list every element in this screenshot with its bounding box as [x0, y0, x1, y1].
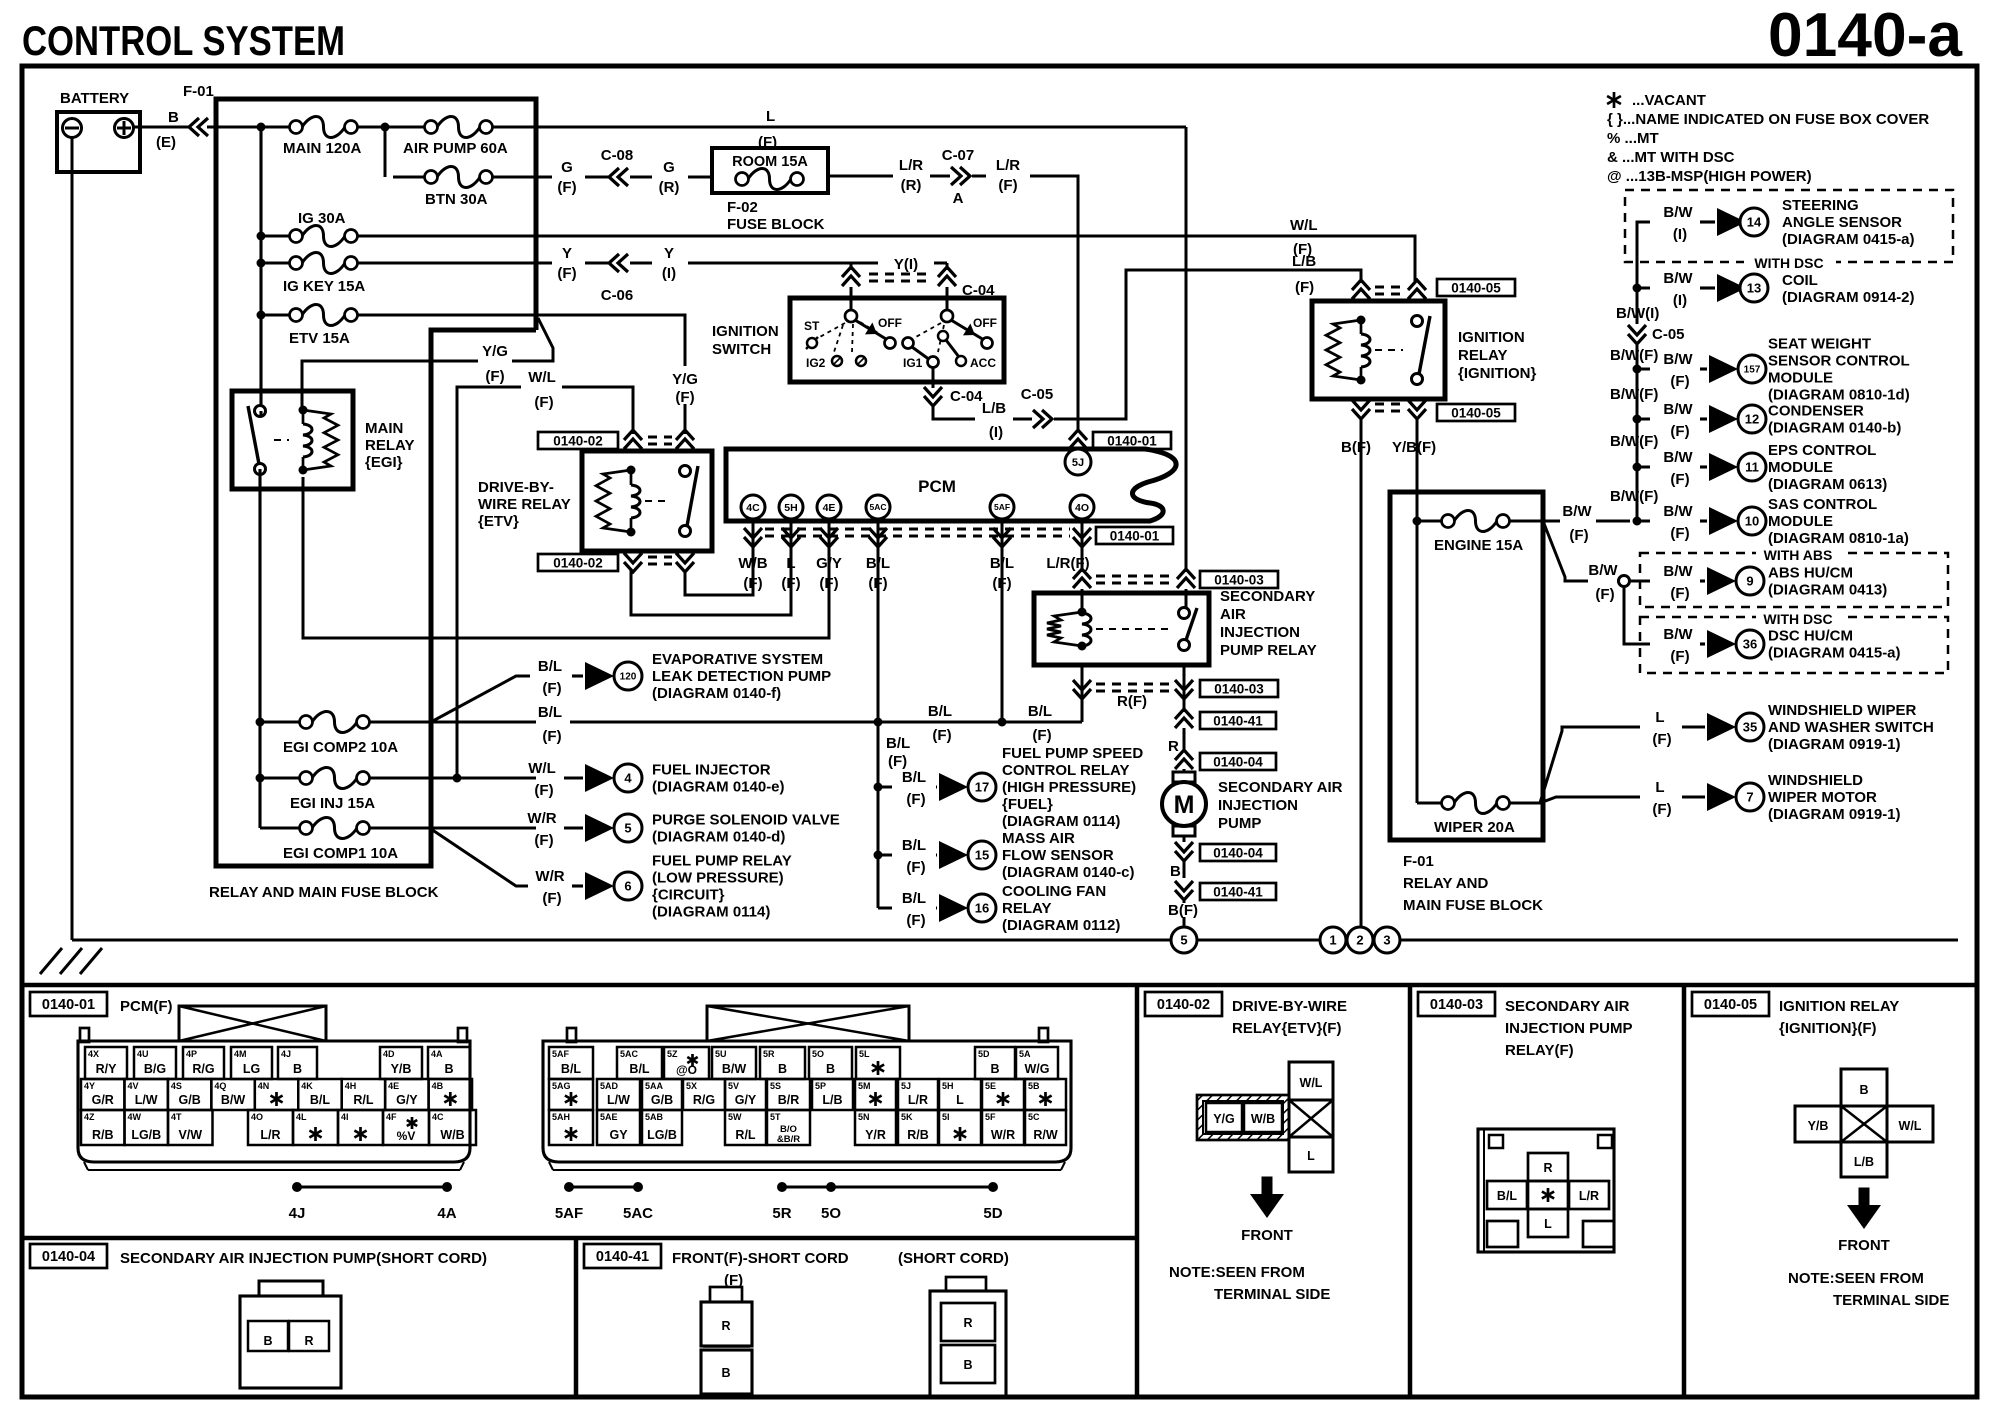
pin 5H — [779, 495, 803, 519]
connector 0140-05 bottom — [1352, 409, 1370, 419]
svg-text:36: 36 — [1743, 637, 1757, 652]
fuse EGI COMP1 10A — [260, 827, 301, 830]
svg-text:Y/G: Y/G — [672, 371, 698, 388]
svg-text:B/L: B/L — [886, 735, 910, 752]
wire B — [1183, 859, 1186, 878]
svg-text:5Z: 5Z — [667, 1049, 678, 1059]
svg-text:5: 5 — [624, 821, 631, 836]
junction 11 — [1633, 463, 1642, 472]
svg-text:0140-03: 0140-03 — [1214, 681, 1264, 696]
fuse ETV 15A — [290, 309, 303, 322]
ground point 1 — [1320, 927, 1346, 953]
ground point 5 — [1171, 927, 1197, 953]
svg-text:B/L: B/L — [902, 837, 926, 854]
svg-text:Y/B: Y/B — [1808, 1119, 1829, 1133]
svg-text:A: A — [953, 190, 964, 207]
svg-text:{IGNITION}(F): {IGNITION}(F) — [1779, 1020, 1877, 1037]
connector short cord — [946, 1277, 986, 1291]
svg-text:5AF: 5AF — [994, 502, 1010, 512]
svg-text:& ...MT WITH DSC: & ...MT WITH DSC — [1607, 149, 1735, 166]
svg-text:0140-41: 0140-41 — [596, 1249, 649, 1265]
svg-text:(F): (F) — [675, 389, 694, 406]
svg-text:0140-01: 0140-01 — [1110, 528, 1160, 543]
wire stub to 17 — [878, 786, 892, 789]
svg-text:DRIVE-BY-WIRE: DRIVE-BY-WIRE — [1232, 998, 1347, 1015]
svg-text:4H: 4H — [345, 1081, 357, 1091]
pin 5S B/R — [767, 1079, 810, 1110]
svg-text:(F): (F) — [1670, 648, 1689, 665]
svg-text:R: R — [963, 1316, 972, 1330]
svg-text:4J: 4J — [281, 1049, 291, 1059]
svg-text:WINDSHIELD WIPER: WINDSHIELD WIPER — [1768, 702, 1916, 719]
svg-text:%V: %V — [397, 1129, 416, 1143]
svg-text:5R: 5R — [763, 1049, 775, 1059]
wire EGI COMP1 output W/R — [370, 827, 536, 830]
svg-text:9: 9 — [1746, 574, 1753, 589]
battery — [57, 90, 140, 172]
svg-text:4E: 4E — [823, 502, 836, 514]
svg-text:AND WASHER SWITCH: AND WASHER SWITCH — [1768, 719, 1934, 736]
connector C-04 bottom chevron — [924, 396, 942, 406]
PCM connector A shell — [179, 1006, 326, 1041]
pin 5AF — [990, 495, 1014, 519]
panel 0140-41 header — [584, 1244, 661, 1268]
svg-text:5X: 5X — [686, 1081, 697, 1091]
svg-text:0140-04: 0140-04 — [1213, 845, 1263, 860]
svg-text:B: B — [826, 1062, 835, 1076]
callout 13 COIL — [1637, 287, 1650, 290]
svg-text:B/W: B/W — [1663, 270, 1693, 287]
svg-text:L: L — [786, 555, 795, 572]
fuse AIR PUMP 60A — [425, 121, 438, 134]
svg-text:(HIGH PRESSURE): (HIGH PRESSURE) — [1002, 779, 1136, 796]
wire L(F) vertical to SAIP relay — [1185, 127, 1188, 572]
svg-text:(F): (F) — [1670, 471, 1689, 488]
svg-text:(DIAGRAM 0140-b): (DIAGRAM 0140-b) — [1768, 420, 1901, 437]
svg-text:4A: 4A — [431, 1049, 443, 1059]
connector 0140-41 chevron R — [1175, 709, 1193, 719]
svg-text:4V: 4V — [127, 1081, 138, 1091]
svg-text:R/L: R/L — [735, 1128, 756, 1142]
svg-text:R/W: R/W — [1033, 1128, 1058, 1142]
svg-text:EGI COMP2 10A: EGI COMP2 10A — [283, 739, 398, 756]
junction callout 17 — [874, 783, 883, 792]
svg-text:(DIAGRAM 0810-1a): (DIAGRAM 0810-1a) — [1768, 530, 1909, 547]
wire switch to pump R(F) — [1183, 665, 1186, 712]
svg-text:C-07: C-07 — [942, 147, 975, 164]
pin 4T V/W — [168, 1110, 213, 1145]
svg-text:4X: 4X — [88, 1049, 99, 1059]
svg-text:0140-03: 0140-03 — [1214, 572, 1264, 587]
svg-text:4Z: 4Z — [84, 1112, 95, 1122]
wire Y(F) — [358, 262, 552, 265]
svg-text:W/G: W/G — [1025, 1062, 1050, 1076]
svg-text:L/R: L/R — [899, 157, 923, 174]
pin 4E — [817, 495, 841, 519]
svg-text:PCM(F): PCM(F) — [120, 998, 173, 1015]
svg-text:G/Y: G/Y — [735, 1093, 757, 1107]
svg-text:5L: 5L — [859, 1049, 870, 1059]
svg-text:DSC HU/CM: DSC HU/CM — [1768, 628, 1853, 645]
PCM connector B shell — [707, 1006, 909, 1041]
wire G(F) from BTN fuse — [493, 176, 552, 179]
svg-text:(DIAGRAM 0415-a): (DIAGRAM 0415-a) — [1782, 231, 1915, 248]
panel divider vertical 0140-03|0140-05 — [1682, 985, 1687, 1397]
svg-text:5B: 5B — [1028, 1081, 1040, 1091]
svg-text:4Q: 4Q — [214, 1081, 226, 1091]
wire Y(I) bracket right drop — [946, 263, 949, 270]
svg-text:B: B — [168, 109, 179, 126]
svg-text:Y/G: Y/G — [1213, 1112, 1235, 1126]
svg-text:Y(I): Y(I) — [894, 256, 918, 273]
svg-text:5M: 5M — [858, 1081, 871, 1091]
junction coil row — [1633, 284, 1642, 293]
svg-text:W/B: W/B — [1251, 1112, 1275, 1126]
svg-text:5AH: 5AH — [552, 1112, 570, 1122]
svg-text:6: 6 — [624, 879, 631, 894]
svg-text:5AC: 5AC — [620, 1049, 639, 1059]
junction open circle abs/dsc — [1617, 580, 1618, 583]
svg-text:@ ...13B-MSP(HIGH POWER): @ ...13B-MSP(HIGH POWER) — [1607, 168, 1812, 185]
junction B/W chain — [1633, 517, 1642, 526]
svg-text:BTN 30A: BTN 30A — [425, 191, 488, 208]
junction 157 — [1633, 365, 1642, 374]
junction engine fuse — [1413, 517, 1422, 526]
wire Y(I) to ignition switch — [688, 262, 878, 265]
wire into pump motor — [1183, 769, 1186, 773]
wire B(F) to ground points — [1360, 417, 1363, 927]
svg-text:(LOW PRESSURE): (LOW PRESSURE) — [652, 870, 784, 887]
wire BTN branch — [384, 127, 387, 177]
svg-text:R: R — [721, 1319, 730, 1333]
svg-text:5D: 5D — [978, 1049, 990, 1059]
svg-text:EGI INJ 15A: EGI INJ 15A — [290, 795, 375, 812]
svg-text:PCM: PCM — [918, 477, 956, 496]
svg-text:% ...MT: % ...MT — [1607, 130, 1659, 147]
svg-text:4M: 4M — [234, 1049, 247, 1059]
svg-text:17: 17 — [975, 780, 989, 795]
connector C-06 — [585, 262, 608, 265]
svg-text:B/W: B/W — [1663, 401, 1693, 418]
ground — [40, 948, 62, 974]
panel divider vertical 0140-01|0140-02 — [1135, 985, 1140, 1397]
wire IG1 out — [932, 368, 935, 388]
panel divider horizontal main/bottom — [22, 983, 1977, 988]
svg-text:W/R: W/R — [527, 810, 556, 827]
svg-text:G/Y: G/Y — [816, 555, 842, 572]
pin 5AB LG/B — [642, 1110, 682, 1145]
svg-text:0140-05: 0140-05 — [1451, 280, 1501, 295]
svg-text:FUEL INJECTOR: FUEL INJECTOR — [652, 762, 771, 779]
connector 0140-02 bottom — [538, 554, 618, 571]
svg-text:Y/B: Y/B — [391, 1062, 412, 1076]
connector 0140-05 top — [1352, 280, 1370, 290]
svg-text:G: G — [663, 159, 675, 176]
svg-text:(I): (I) — [1673, 226, 1687, 243]
junction EGI INJ — [256, 774, 265, 783]
svg-text:B/L: B/L — [1028, 703, 1052, 720]
svg-text:IG2: IG2 — [806, 356, 826, 370]
svg-text:@O: @O — [676, 1063, 697, 1077]
pin 4C — [741, 495, 765, 519]
svg-text:(F): (F) — [906, 912, 925, 929]
svg-text:5H: 5H — [784, 502, 797, 514]
svg-text:AIR: AIR — [1220, 606, 1246, 623]
svg-text:(DIAGRAM 0140-f): (DIAGRAM 0140-f) — [652, 685, 781, 702]
svg-text:B/W: B/W — [1663, 626, 1693, 643]
junction bus/ETV — [257, 311, 266, 320]
svg-text:(R): (R) — [901, 177, 922, 194]
svg-text:EVAPORATIVE SYSTEM: EVAPORATIVE SYSTEM — [652, 651, 823, 668]
connector 0140-04 chevron R — [1175, 750, 1193, 760]
panel divider vertical 0140-04|0140-41 — [574, 1238, 579, 1397]
connector front short cord F — [710, 1287, 742, 1302]
svg-text:R: R — [1543, 1161, 1552, 1175]
svg-text:10: 10 — [1745, 514, 1759, 529]
wire elbow to 16 — [878, 907, 892, 910]
ignition switch box — [790, 298, 1004, 382]
connector 0140-41 chevron B — [1175, 890, 1193, 900]
fuse MAIN 120A — [290, 121, 303, 134]
svg-text:4I: 4I — [341, 1112, 349, 1122]
svg-text:5P: 5P — [815, 1081, 826, 1091]
junction callout 15 — [874, 851, 883, 860]
svg-text:(F): (F) — [534, 782, 553, 799]
junction bus/B row — [257, 123, 266, 132]
panel divider vertical 0140-02|0140-03 — [1408, 985, 1413, 1397]
svg-text:4C: 4C — [432, 1112, 444, 1122]
svg-text:CONDENSER: CONDENSER — [1768, 403, 1864, 420]
svg-text:MAIN 120A: MAIN 120A — [283, 140, 362, 157]
svg-text:R/G: R/G — [192, 1062, 214, 1076]
svg-text:(F): (F) — [998, 177, 1017, 194]
svg-text:W/L: W/L — [1300, 1076, 1323, 1090]
svg-text:5AF: 5AF — [552, 1049, 570, 1059]
svg-text:4N: 4N — [258, 1081, 270, 1091]
svg-text:5U: 5U — [715, 1049, 727, 1059]
svg-text:(F): (F) — [888, 753, 907, 770]
junction bus/IG30A — [257, 232, 266, 241]
svg-text:(I): (I) — [1673, 292, 1687, 309]
wire L to wiper motor — [1540, 797, 1640, 803]
panel 0140-02 header — [1145, 992, 1222, 1016]
connector C-05 — [1033, 410, 1043, 428]
svg-text:B/L: B/L — [902, 769, 926, 786]
ignition switch contacts — [804, 310, 997, 370]
svg-text:(SHORT CORD): (SHORT CORD) — [898, 1250, 1009, 1267]
svg-text:ENGINE 15A: ENGINE 15A — [1434, 537, 1523, 554]
svg-text:{IGNITION}: {IGNITION} — [1458, 365, 1537, 382]
svg-text:(F): (F) — [485, 368, 504, 385]
connector SAIP relay — [1478, 1129, 1614, 1252]
motor M secondary air injection pump — [1173, 772, 1195, 782]
svg-text:B/W: B/W — [1663, 204, 1693, 221]
junction 5AC/B-L — [874, 718, 883, 727]
svg-text:2: 2 — [1356, 933, 1363, 948]
svg-text:0140-01: 0140-01 — [42, 997, 95, 1013]
pin 5AC — [866, 495, 890, 519]
pin 5V G/Y — [725, 1079, 766, 1110]
svg-text:4C: 4C — [746, 502, 760, 514]
pin range marker 5R-5O-5D — [782, 1185, 993, 1188]
svg-text:7: 7 — [1746, 790, 1753, 805]
svg-text:OFF: OFF — [973, 316, 997, 330]
svg-text:4S: 4S — [171, 1081, 182, 1091]
connector F-01 chevron — [189, 118, 199, 136]
svg-text:ROOM 15A: ROOM 15A — [732, 154, 808, 170]
svg-text:W/L: W/L — [1899, 1119, 1922, 1133]
junction 12 — [1633, 415, 1642, 424]
pin 5E vacant — [982, 1079, 1024, 1110]
svg-text:L/W: L/W — [607, 1093, 630, 1107]
wire R — [1183, 728, 1186, 750]
svg-text:B/G: B/G — [144, 1062, 166, 1076]
wire B(F) to ground point 5 — [1183, 898, 1186, 927]
svg-text:5K: 5K — [901, 1112, 913, 1122]
svg-text:STEERING: STEERING — [1782, 197, 1859, 214]
connector 0140-04 chevron B — [1183, 836, 1186, 842]
svg-text:ABS HU/CM: ABS HU/CM — [1768, 565, 1853, 582]
svg-text:5O: 5O — [821, 1205, 841, 1222]
svg-text:WIPER 20A: WIPER 20A — [1434, 819, 1515, 836]
fuse EGI COMP2 10A — [300, 716, 313, 729]
svg-text:FRONT: FRONT — [1241, 1227, 1293, 1244]
svg-text:...VACANT: ...VACANT — [1632, 92, 1706, 109]
pin 4S G/B — [168, 1079, 211, 1110]
svg-text:B/W(F): B/W(F) — [1610, 488, 1658, 505]
svg-text:0140-04: 0140-04 — [42, 1249, 95, 1265]
svg-text:L: L — [1544, 1217, 1552, 1231]
svg-text:{EGI}: {EGI} — [365, 454, 403, 471]
svg-text:WITH DSC: WITH DSC — [1763, 611, 1832, 627]
svg-text:5AC: 5AC — [869, 502, 886, 512]
svg-text:R(F): R(F) — [1117, 693, 1147, 710]
svg-text:B/W(F): B/W(F) — [1610, 347, 1658, 364]
svg-text:COIL: COIL — [1782, 272, 1818, 289]
svg-text:B/L: B/L — [310, 1093, 331, 1107]
pin 5AH vacant — [549, 1110, 593, 1145]
wire into 9 — [1630, 580, 1650, 583]
svg-text:W/B: W/B — [440, 1128, 464, 1142]
pin 5H L — [939, 1079, 981, 1110]
pin 4Z R/B — [81, 1110, 125, 1145]
svg-text:Y: Y — [562, 245, 572, 262]
svg-text:L/B: L/B — [1292, 253, 1316, 270]
svg-text:(DIAGRAM 0114): (DIAGRAM 0114) — [1002, 813, 1120, 830]
svg-text:5AC: 5AC — [623, 1205, 653, 1222]
svg-text:L/R: L/R — [260, 1128, 280, 1142]
wire 5AC down — [877, 548, 880, 722]
pin 5J — [1065, 449, 1091, 475]
connector C-08 — [585, 176, 608, 179]
panel 0140-01 PCM(F) header — [30, 992, 107, 1016]
junction EGI COMP2 — [256, 718, 265, 727]
pin 5AD L/W — [597, 1079, 640, 1110]
svg-text:W/L: W/L — [1290, 217, 1318, 234]
svg-text:{ETV}: {ETV} — [478, 513, 519, 530]
svg-text:(F): (F) — [781, 575, 800, 592]
wire L/B(I) — [933, 404, 975, 419]
pin 4F %V — [383, 1110, 429, 1145]
svg-text:WITH ABS: WITH ABS — [1764, 547, 1833, 563]
svg-text:(E): (E) — [156, 134, 176, 151]
wire Y(I) bracket left drop — [850, 263, 853, 270]
svg-text:F-01: F-01 — [183, 83, 214, 100]
svg-text:SECONDARY AIR INJECTION PUMP(S: SECONDARY AIR INJECTION PUMP(SHORT CORD) — [120, 1250, 487, 1267]
svg-text:4U: 4U — [137, 1049, 149, 1059]
fuse block F-02 box — [712, 148, 828, 193]
svg-text:L: L — [766, 108, 775, 125]
svg-text:F-01: F-01 — [1403, 853, 1434, 870]
relay IGNITION RELAY (IGNITION) — [1312, 301, 1445, 399]
svg-text:Y: Y — [664, 245, 674, 262]
wire bus into main relay switch — [259, 411, 262, 416]
fuse BTN 30A — [425, 171, 438, 184]
wire 5AF down — [1001, 548, 1004, 722]
svg-text:35: 35 — [1743, 720, 1757, 735]
wire B/W(I) chain top — [1637, 222, 1650, 288]
wire battery B(E) — [133, 126, 190, 129]
svg-text:W/R: W/R — [991, 1128, 1015, 1142]
svg-text:B: B — [721, 1366, 730, 1380]
svg-text:(DIAGRAM 0613): (DIAGRAM 0613) — [1768, 476, 1887, 493]
wire B/L rise to SAIP coil — [1060, 721, 1082, 724]
svg-text:LG/B: LG/B — [131, 1128, 161, 1142]
svg-text:(F): (F) — [542, 728, 561, 745]
svg-text:(F): (F) — [534, 394, 553, 411]
svg-text:B/W(F): B/W(F) — [1610, 433, 1658, 450]
wire Y/G(F) to drive-by-wire relay switch — [536, 315, 685, 366]
svg-text:EPS CONTROL: EPS CONTROL — [1768, 442, 1876, 459]
svg-text:(DIAGRAM 0140-e): (DIAGRAM 0140-e) — [652, 779, 785, 796]
pin 4O — [1070, 495, 1094, 519]
svg-text:B/W: B/W — [722, 1062, 747, 1076]
svg-text:DRIVE-BY-: DRIVE-BY- — [478, 479, 554, 496]
svg-text:(F): (F) — [906, 859, 925, 876]
svg-text:WIRE RELAY: WIRE RELAY — [478, 496, 571, 513]
svg-text:5R: 5R — [772, 1205, 791, 1222]
svg-text:5E: 5E — [985, 1081, 996, 1091]
svg-text:5AA: 5AA — [645, 1081, 664, 1091]
svg-text:5J: 5J — [901, 1081, 911, 1091]
pin 4M LG — [231, 1047, 272, 1079]
svg-text:B/L: B/L — [928, 703, 952, 720]
svg-text:SECONDARY AIR: SECONDARY AIR — [1218, 779, 1343, 796]
pin 5W R/L — [725, 1110, 766, 1145]
connector 0140-01 chevrons below PCM — [752, 519, 755, 548]
svg-text:GY: GY — [609, 1128, 628, 1142]
svg-text:B/W: B/W — [1562, 503, 1592, 520]
panel divider horizontal 0140-01/0140-04 — [22, 1236, 1137, 1241]
pin 4Y G/R — [81, 1079, 124, 1110]
svg-text:RELAY{ETV}(F): RELAY{ETV}(F) — [1232, 1020, 1341, 1037]
svg-text:R/B: R/B — [907, 1128, 929, 1142]
svg-text:5S: 5S — [770, 1081, 781, 1091]
svg-text:5F: 5F — [985, 1112, 996, 1122]
svg-text:RELAY AND: RELAY AND — [1403, 875, 1488, 892]
svg-text:L/B: L/B — [1854, 1155, 1874, 1169]
svg-text:L/B: L/B — [982, 400, 1006, 417]
svg-text:Y/B(F): Y/B(F) — [1392, 439, 1436, 456]
svg-text:4J: 4J — [289, 1205, 306, 1222]
svg-text:RELAY(F): RELAY(F) — [1505, 1042, 1574, 1059]
pin 5N Y/R — [855, 1110, 896, 1145]
svg-text:W/B: W/B — [738, 555, 767, 572]
pin 5AA G/B — [642, 1079, 682, 1110]
svg-text:Y/R: Y/R — [865, 1128, 886, 1142]
pin 4X R/Y — [85, 1047, 127, 1079]
svg-text:4B: 4B — [432, 1081, 444, 1091]
